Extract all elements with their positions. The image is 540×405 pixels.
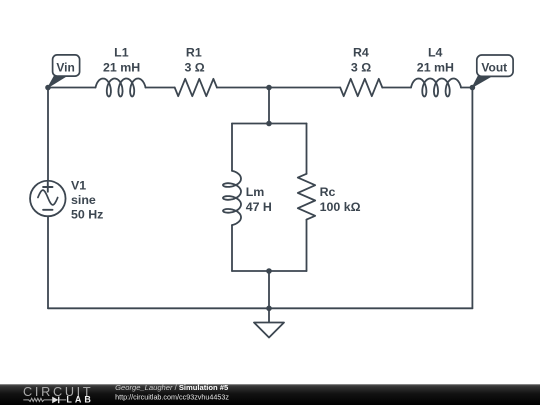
voltage source V1 sine wave xyxy=(38,190,58,205)
wire left branch above Lm xyxy=(231,124,233,171)
svg-text:50 Hz: 50 Hz xyxy=(71,207,103,221)
inductor L4 xyxy=(411,79,461,97)
svg-text:Lm: Lm xyxy=(246,185,265,199)
wire top rail: L1 to R1 xyxy=(146,87,175,89)
wire center drop: top rail to parallel box xyxy=(268,88,270,124)
ground triangle xyxy=(254,323,284,338)
resistor R4 xyxy=(340,79,382,96)
wire top rail: R4 to L4 xyxy=(382,87,411,89)
node Vout flag pointer xyxy=(472,76,492,87)
svg-text:sine: sine xyxy=(71,193,96,207)
svg-text:George_Laugher / Simulation #5: George_Laugher / Simulation #5 xyxy=(115,383,229,392)
inductor Lm xyxy=(223,171,241,225)
CircuitLab logo diode xyxy=(52,397,58,404)
svg-text:47 H: 47 H xyxy=(246,200,272,214)
svg-text:V1: V1 xyxy=(71,178,86,192)
svg-text:LAB: LAB xyxy=(66,395,94,405)
wire right branch below Rc xyxy=(306,220,308,271)
wire center drop: box bottom to ground node xyxy=(268,271,270,308)
wire top rail: Vin node to L1 xyxy=(48,87,96,89)
voltage source V1 minus sign xyxy=(43,209,52,211)
ground stem xyxy=(268,308,270,322)
junction dot Vout node xyxy=(470,85,476,91)
wire right branch above Rc xyxy=(306,124,308,174)
svg-text:3 Ω: 3 Ω xyxy=(351,61,371,75)
node Vin flag box xyxy=(53,55,80,76)
junction dot top center node xyxy=(266,85,272,91)
svg-text:R1: R1 xyxy=(186,45,202,59)
svg-text:3 Ω: 3 Ω xyxy=(184,61,204,75)
wire top rail: L4 to Vout node xyxy=(461,87,472,89)
junction dot box top node xyxy=(266,121,272,127)
wire bottom rail xyxy=(48,307,472,309)
inductor L1 xyxy=(96,79,146,97)
junction dot Vin node xyxy=(45,85,51,91)
wire right rail: Vout node down to bottom rail xyxy=(471,88,473,309)
junction dot box bottom node xyxy=(266,268,272,274)
CircuitLab logo wire xyxy=(23,398,66,401)
wire parallel box bottom xyxy=(232,270,307,272)
junction dot ground node xyxy=(266,306,272,312)
svg-text:21 mH: 21 mH xyxy=(103,61,140,75)
wire left branch below Lm xyxy=(231,225,233,271)
svg-text:100 kΩ: 100 kΩ xyxy=(320,200,361,214)
svg-text:http://circuitlab.com/cc93zvhu: http://circuitlab.com/cc93zvhu4453z xyxy=(115,392,229,401)
resistor R1 xyxy=(175,79,217,96)
wire left rail: Vin node down to V1 top xyxy=(47,88,49,182)
wire parallel box top xyxy=(232,123,307,125)
voltage source V1 plus sign xyxy=(43,182,52,191)
wire top rail: R1 to R4 through center node xyxy=(217,87,340,89)
wire left rail: V1 bottom down to bottom rail xyxy=(47,216,49,308)
svg-text:Vout: Vout xyxy=(481,60,507,74)
svg-text:L1: L1 xyxy=(114,45,129,59)
svg-text:Vin: Vin xyxy=(56,61,74,75)
node Vout flag box xyxy=(477,55,513,76)
node Vin flag pointer xyxy=(48,76,67,88)
svg-text:L4: L4 xyxy=(428,45,443,59)
footer bar xyxy=(0,384,540,405)
voltage source V1 circle xyxy=(30,181,66,217)
svg-text:R4: R4 xyxy=(353,45,369,59)
svg-text:Rc: Rc xyxy=(320,185,336,199)
svg-text:21 mH: 21 mH xyxy=(417,61,454,75)
resistor Rc xyxy=(298,174,315,220)
